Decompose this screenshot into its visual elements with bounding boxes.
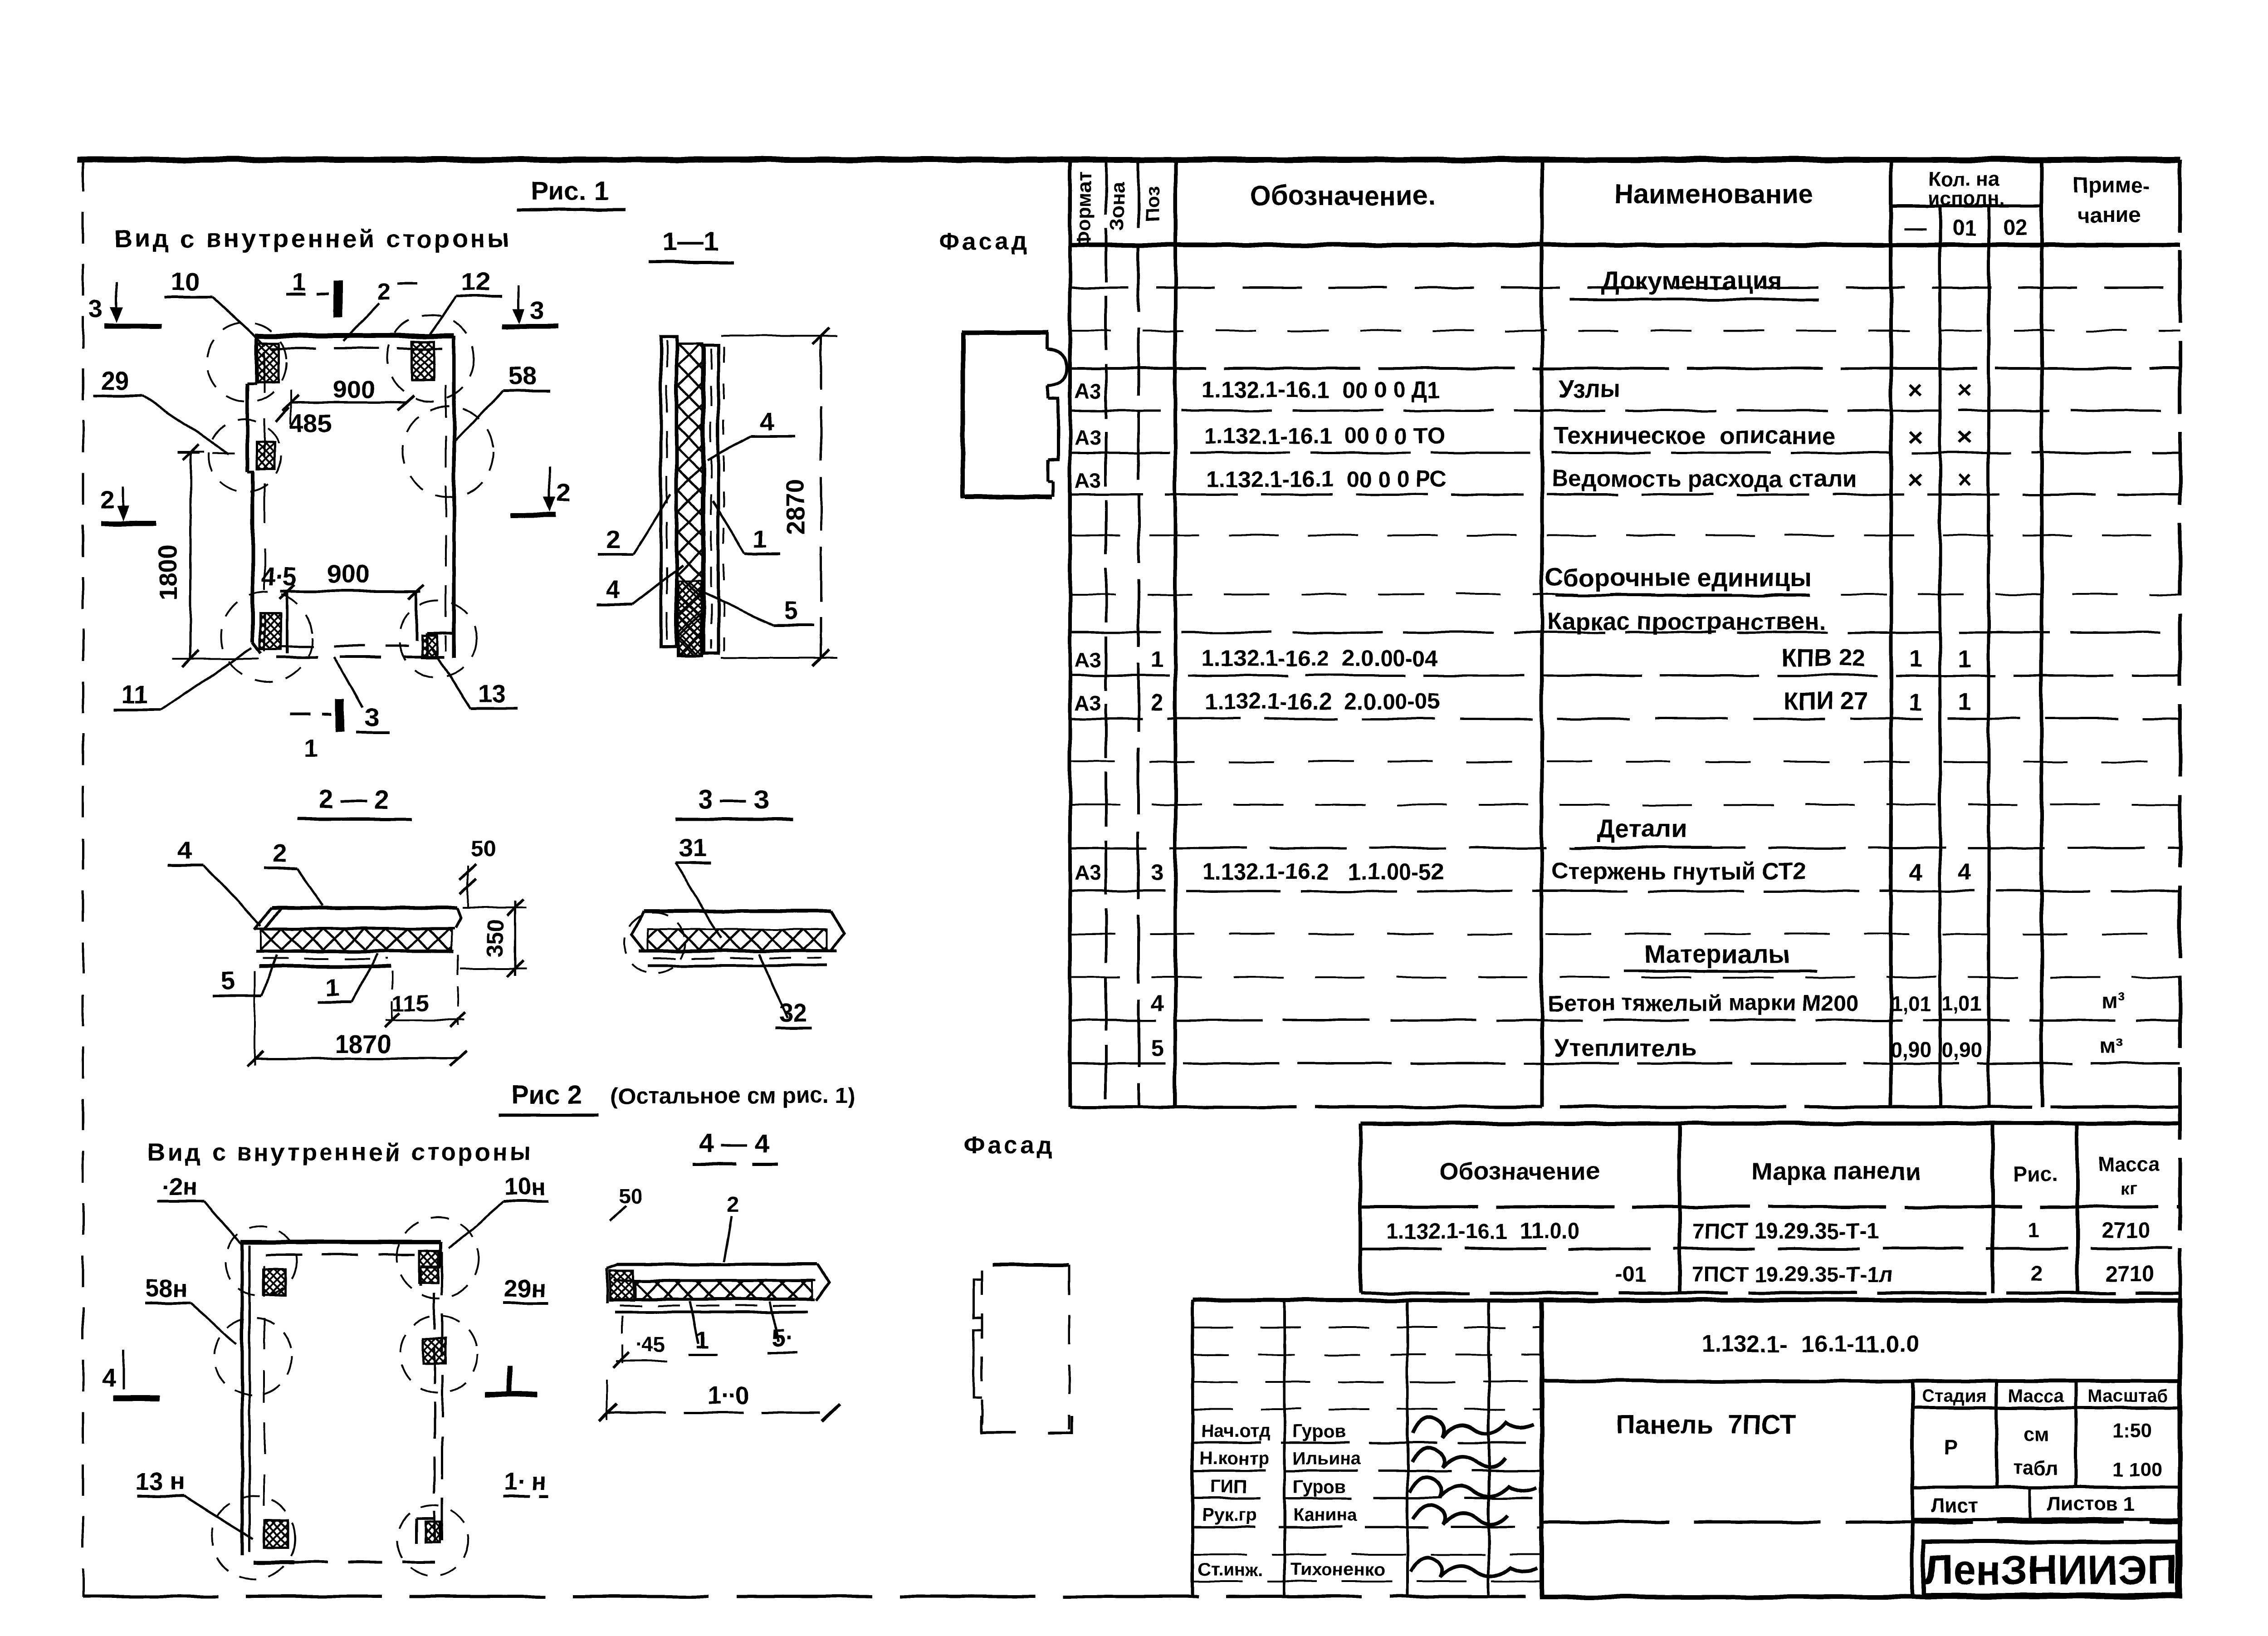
section 2-2 label 1 [318,954,377,1003]
svg-text:Обозначение: Обозначение [1439,1158,1599,1185]
svg-text:Стержень гнутый СТ2: Стержень гнутый СТ2 [1551,858,1806,885]
section 4-4 dim 50 [610,1184,642,1221]
svg-text:4: 4 [177,836,191,864]
svg-text:Листов 1: Листов 1 [2047,1493,2135,1515]
svg-text:900: 900 [327,560,369,588]
svg-text:КПВ 22: КПВ 22 [1781,644,1866,671]
svg-text:Обозначение.: Обозначение. [1250,181,1436,211]
svg-text:Детали: Детали [1597,814,1687,842]
svg-text:5: 5 [784,596,798,625]
svg-text:4: 4 [1958,859,1971,886]
svg-text:0,90: 0,90 [1941,1038,1982,1062]
svg-text:Материалы: Материалы [1644,940,1789,968]
section 1-1 label 4 upper [708,407,795,460]
svg-text:Рис 2: Рис 2 [512,1080,582,1109]
spec table grid [1070,160,2180,1107]
svg-text:Ведомость расхода стали: Ведомость расхода стали [1551,466,1857,492]
svg-text:2870: 2870 [781,479,809,536]
section 4-4 label 1 [689,1301,718,1355]
svg-text:Фасад: Фасад [938,228,1030,255]
svg-text:4: 4 [1909,859,1922,886]
section 3-3 caption [675,785,793,819]
svg-text:2: 2 [273,839,287,867]
svg-text:1: 1 [1958,646,1971,672]
svg-text:1.132.1-16.2 1.1.00-52: 1.132.1-16.2 1.1.00-52 [1202,859,1444,884]
svg-text:ГИП: ГИП [1210,1477,1246,1497]
svg-text:01: 01 [1952,216,1976,240]
fig1 label 12 [427,267,503,337]
section 1-1 label 1 [713,501,780,553]
fig1 section mark 1 bottom [290,699,340,762]
section 1-1 inner layer [704,346,724,653]
svg-text:1.132.1- 16.1-11.0.0: 1.132.1- 16.1-11.0.0 [1701,1331,1919,1357]
fig2 caption [499,1080,855,1115]
fig2 label 29н [503,1275,549,1303]
fig1 notch centerline [177,452,240,454]
fig1 panel outline [247,336,454,658]
svg-text:4 — 4: 4 — 4 [699,1129,769,1158]
section 2-2 dim 1870 [247,971,466,1066]
fig2 anchor pads [263,1251,446,1547]
svg-text:кг: кг [2121,1178,2137,1198]
svg-text:10н: 10н [504,1173,547,1200]
svg-text:Рук.гр: Рук.гр [1202,1505,1257,1525]
svg-text:1: 1 [292,267,306,296]
svg-text:1.132.1-16.2 2.0.00-05: 1.132.1-16.2 2.0.00-05 [1204,689,1440,714]
svg-text:Нач.отд: Нач.отд [1201,1421,1270,1441]
svg-text:485: 485 [289,409,332,437]
fig1 title Вид с внутренней стороны [114,224,512,253]
svg-text:Наименование: Наименование [1614,179,1813,209]
svg-text:табл: табл [2013,1457,2058,1479]
svg-text:2: 2 [1151,690,1163,715]
fig1 label 29 [93,366,229,454]
svg-text:×: × [1957,422,1972,451]
svg-text:Формат: Формат [1073,171,1095,248]
fig1 section mark 3 left [88,282,161,326]
svg-text:Поз: Поз [1142,186,1164,222]
svg-text:4: 4 [102,1363,116,1391]
svg-text:1.132.1-16.1 11.0.0: 1.132.1-16.1 11.0.0 [1386,1220,1579,1244]
svg-text:29н: 29н [504,1275,547,1302]
fig1 section mark 1 top [286,267,338,318]
fig1 dim 1800 [154,445,259,667]
svg-text:1800: 1800 [154,544,182,601]
section 3-3 label 31 [675,833,721,938]
svg-text:4: 4 [606,575,620,603]
svg-text:Бетон тяжелый марки М200: Бетон тяжелый марки М200 [1548,990,1859,1016]
svg-text:1: 1 [1909,646,1922,672]
fig2 panel outline [241,1242,442,1562]
section 4-4 caption [693,1129,778,1164]
svg-text:1∙∙0: 1∙∙0 [707,1381,749,1410]
fig1 anchor pads [257,341,437,658]
svg-text:2: 2 [377,279,391,305]
fig1 caption Рис. 1 [517,176,626,210]
svg-text:1.132.1-16.1 00 0 0 Д1: 1.132.1-16.1 00 0 0 Д1 [1202,377,1440,402]
svg-text:350: 350 [482,919,508,957]
svg-text:2710: 2710 [2102,1219,2151,1243]
svg-text:КПИ 27: КПИ 27 [1784,687,1868,715]
svg-text:×: × [1957,375,1972,404]
svg-text:исполн.: исполн. [1928,187,2005,210]
svg-text:Ст.инж.: Ст.инж. [1198,1560,1263,1580]
svg-text:1: 1 [1909,689,1922,715]
section 1-1 label 5 [699,590,814,625]
section 2-2 label 5 [212,955,277,996]
fig2 label 58н [145,1275,237,1344]
svg-text:см: см [2024,1423,2049,1445]
section 4-4 slab [607,1264,829,1312]
svg-text:м³: м³ [2102,989,2126,1013]
svg-text:∙45: ∙45 [635,1333,665,1357]
svg-text:3: 3 [88,294,103,323]
svg-text:Масштаб: Масштаб [2087,1386,2168,1406]
section 4-4 label 2 [724,1192,739,1261]
section 1-1 dim 2870 [721,328,837,666]
svg-text:58н: 58н [146,1275,188,1302]
section 2-2 dim 115 [385,955,466,1027]
svg-text:3 — 3: 3 — 3 [699,785,769,814]
section 4-4 label 5 [767,1301,797,1353]
svg-text:Рис.: Рис. [2013,1163,2057,1186]
svg-text:Канина: Канина [1293,1505,1358,1525]
svg-text:Вид с внутренней стороны: Вид с внутренней стороны [114,224,512,253]
section 2-2 dim 50 [460,836,496,907]
svg-text:Техническое описание: Техническое описание [1554,422,1835,449]
svg-text:50: 50 [619,1184,642,1208]
svg-text:2710: 2710 [2106,1262,2154,1286]
svg-text:1: 1 [753,524,767,553]
svg-text:Стадия: Стадия [1921,1386,1987,1406]
svg-text:×: × [1957,465,1972,494]
svg-text:58: 58 [508,362,537,390]
fig1 label 13 [432,649,518,709]
fig2 label 13н [136,1468,253,1539]
logo box ЛенЗНИИЭП [1923,1542,2177,1595]
svg-text:(Остальное см рис. 1): (Остальное см рис. 1) [610,1083,855,1108]
svg-text:×: × [1908,465,1923,494]
section 4-4 dim 115 [613,1316,667,1367]
fig1 label 11 [113,648,252,710]
svg-text:4: 4 [1151,990,1163,1016]
svg-text:Каркас пространствен.: Каркас пространствен. [1547,608,1826,635]
svg-text:32: 32 [779,999,807,1027]
svg-text:—: — [1904,216,1926,240]
svg-text:А3: А3 [1075,379,1101,403]
svg-text:Р: Р [1944,1435,1958,1459]
svg-text:∙2н: ∙2н [161,1173,197,1200]
svg-text:5: 5 [220,966,235,994]
svg-text:1: 1 [2028,1218,2040,1241]
fig1 dim 485 top [276,407,332,437]
svg-text:29: 29 [101,366,129,395]
spec table headers [1073,168,2151,248]
svg-text:А3: А3 [1075,861,1101,885]
svg-text:1.132.1-16.1 00 0 0 ТО: 1.132.1-16.1 00 0 0 ТО [1204,423,1445,449]
svg-text:1.132.1-16.2 2.0.00-04: 1.132.1-16.2 2.0.00-04 [1202,646,1438,671]
fig1 label 2 top [343,279,417,341]
svg-text:чание: чание [2077,203,2141,227]
svg-text:31: 31 [678,833,706,862]
svg-text:12: 12 [462,267,490,296]
section 3-3 detail circle [624,912,685,973]
section 3-3 slab [631,911,845,965]
svg-text:Зона: Зона [1106,182,1129,230]
svg-text:50: 50 [471,836,496,862]
svg-text:Масса: Масса [2098,1153,2160,1175]
svg-text:1:50: 1:50 [2112,1420,2152,1442]
svg-text:Фасад: Фасад [963,1131,1055,1159]
svg-text:Документация: Документация [1601,266,1783,295]
svg-text:13: 13 [478,679,506,708]
svg-text:1 100: 1 100 [2112,1458,2162,1480]
svg-text:Гуров: Гуров [1293,1477,1345,1497]
svg-text:1,01: 1,01 [1941,992,1982,1015]
svg-text:3: 3 [1151,860,1163,885]
svg-text:А3: А3 [1075,691,1101,715]
svg-text:1: 1 [1151,647,1163,672]
fig1 dim 900 top [282,375,414,424]
svg-text:А3: А3 [1075,469,1101,492]
fig1 label 58 [454,362,550,442]
fig1 label 3 bottom [334,657,389,732]
fig2 detail circles [211,1217,479,1580]
svg-text:1: 1 [304,734,318,762]
svg-text:7ПСТ 19.29.35-Т-1: 7ПСТ 19.29.35-Т-1 [1692,1220,1879,1244]
svg-text:Тихоненко: Тихоненко [1290,1560,1385,1580]
svg-text:13 н: 13 н [136,1468,185,1495]
svg-text:Вид с внутренней стороны: Вид с внутренней стороны [147,1139,533,1166]
facade2 outline [974,1265,1072,1433]
fig1 section mark 2 right [510,466,571,515]
svg-text:Рис. 1: Рис. 1 [531,176,608,206]
svg-text:1.132.1-16.1 00 0 0 РС: 1.132.1-16.1 00 0 0 РС [1207,466,1447,492]
svg-text:А3: А3 [1075,648,1101,671]
section 1-1 label 4 lower [597,565,683,604]
svg-text:11: 11 [121,680,148,709]
svg-text:2: 2 [100,485,114,514]
svg-text:3: 3 [365,703,379,731]
title block grid [1542,1300,2180,1597]
panel mark table text [1386,1153,2160,1287]
svg-text:02: 02 [2003,216,2027,240]
section 2-2 dim 350 [460,899,526,976]
section 3-3 label 32 [758,954,812,1028]
svg-text:900: 900 [332,375,375,404]
fig1 detail circles [207,314,494,682]
facade1 outline [962,333,1067,498]
svg-text:5: 5 [1151,1036,1163,1061]
svg-text:2 — 2: 2 — 2 [319,785,389,814]
svg-text:×: × [1908,375,1923,404]
svg-text:4: 4 [759,407,773,436]
svg-text:115: 115 [392,990,429,1016]
svg-text:Лист: Лист [1931,1494,1979,1517]
fig1 section mark 3 right [502,285,559,326]
signature table grid [1193,1300,1542,1597]
signature table text [1198,1421,1385,1580]
svg-text:1870: 1870 [335,1029,391,1058]
svg-text:2: 2 [606,525,620,553]
svg-text:м³: м³ [2100,1034,2123,1058]
section 2-2 caption [297,785,412,819]
section 4-4 dim 1870 [599,1379,840,1421]
panel mark table grid [1360,1123,2180,1293]
fig1 bottom dim line and opening [279,584,424,653]
svg-text:Гуров: Гуров [1293,1421,1345,1441]
svg-text:ЛенЗНИИЭП: ЛенЗНИИЭП [1923,1547,2177,1593]
svg-text:1: 1 [325,973,339,1002]
section 2-2 label 2 [264,839,323,906]
svg-text:2: 2 [557,478,571,507]
section 1-1 insulation layer [677,344,702,656]
svg-text:Приме-: Приме- [2072,174,2151,198]
signatures squiggles [1410,1417,1537,1577]
section 2-2 label 4 [168,836,261,926]
svg-text:0,90: 0,90 [1891,1038,1931,1062]
fig2 label 12н [158,1173,241,1244]
section 2-2 slab [254,908,461,966]
svg-text:1,01: 1,01 [1891,992,1931,1015]
svg-text:×: × [1908,422,1923,451]
svg-text:1: 1 [1958,689,1971,715]
svg-text:Узлы: Узлы [1558,376,1620,403]
svg-text:А3: А3 [1075,426,1101,449]
svg-text:Панель 7ПСТ: Панель 7ПСТ [1616,1410,1796,1440]
svg-text:1∙ н: 1∙ н [504,1468,547,1495]
svg-text:2: 2 [2030,1261,2042,1285]
section 1-1 caption [649,227,734,262]
svg-text:Ильина: Ильина [1293,1449,1361,1469]
svg-text:1—1: 1—1 [663,227,719,256]
svg-text:Н.контр: Н.контр [1200,1449,1269,1469]
spec table rows text [1075,266,2126,1062]
fig2 label 10н [449,1173,549,1249]
svg-text:Сборочные единицы: Сборочные единицы [1545,563,1812,592]
section 1-1 outer layer [661,337,676,647]
svg-text:2: 2 [727,1192,739,1217]
fig2 section mark 4 [102,1350,160,1398]
svg-text:-01: -01 [1615,1263,1646,1287]
fig2 section mark 1 right [484,1366,538,1395]
svg-text:Марка панели: Марка панели [1751,1158,1921,1185]
title block text [1616,1331,2168,1517]
fig2 label 11н [503,1468,549,1496]
svg-text:7ПСТ 19.29.35-Т-1л: 7ПСТ 19.29.35-Т-1л [1692,1263,1893,1287]
fig1 section mark 2 left [100,485,156,524]
svg-text:Масса: Масса [2008,1386,2064,1406]
svg-text:3: 3 [530,295,544,324]
svg-text:10: 10 [171,267,199,296]
fig1 label 10 [164,267,265,346]
svg-text:Утеплитель: Утеплитель [1554,1034,1696,1062]
section 1-1 label 2 [598,495,670,554]
